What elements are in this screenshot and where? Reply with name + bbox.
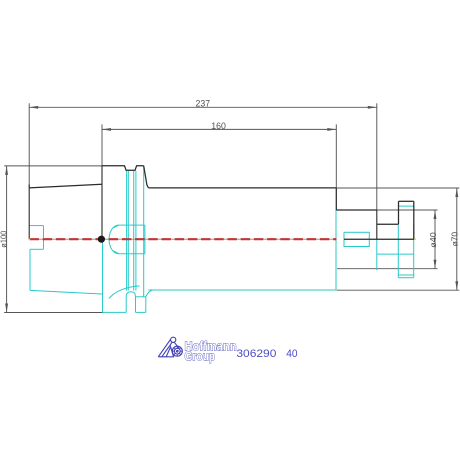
flange top edge with notch	[102, 166, 144, 171]
cavity chamfer top	[113, 225, 119, 228]
taper top edge	[29, 184, 102, 188]
logo head circle	[171, 337, 176, 342]
groove wall 2	[127, 171, 129, 291]
end face lower half	[376, 239, 378, 270]
bore opening end wall	[43, 226, 45, 250]
svg-text:Group: Group	[185, 350, 216, 364]
nut bottom edge	[398, 277, 413, 279]
logo triangle outer	[158, 337, 182, 357]
arrow 237 right	[368, 106, 377, 109]
bore cavity bullet arc	[109, 225, 118, 254]
logo gear hub	[177, 350, 179, 352]
dimension dia40	[337, 210, 438, 269]
flange bottom edge left	[103, 311, 127, 313]
svg-text:30629040: 30629040	[236, 348, 297, 360]
stud top edge	[377, 223, 399, 225]
nut left wall lower	[397, 225, 399, 278]
flange slot bump	[126, 292, 135, 313]
flange front face lower half	[102, 239, 104, 312]
logo gear spokes	[172, 346, 182, 356]
flange back face	[143, 166, 145, 297]
logo inner triangle	[166, 347, 173, 357]
arrow dia40 bottom	[434, 260, 437, 269]
chamfer arc lower	[146, 290, 153, 297]
taper bottom edge	[30, 290, 102, 294]
bore wall	[144, 225, 146, 254]
arrow dia40 top	[434, 210, 437, 219]
svg-text:160: 160	[211, 121, 226, 131]
arrow 237 left	[29, 106, 38, 109]
dimension dia70	[336, 188, 459, 290]
nut inner line lower	[398, 274, 413, 276]
shoulder step	[335, 188, 337, 210]
nut right wall	[413, 201, 415, 239]
centerline end tick right	[414, 238, 416, 240]
arrow 160 right	[327, 128, 336, 131]
arrow 160 left	[102, 128, 111, 131]
stud bottom edge	[377, 253, 414, 255]
section lines cyan lower half	[29, 166, 414, 313]
svg-text:ø70: ø70	[449, 232, 459, 247]
left face	[28, 185, 30, 240]
nut top edge	[399, 200, 414, 202]
flange chamfer	[144, 166, 149, 188]
left face lower half	[29, 249, 31, 290]
flange front face	[101, 166, 103, 239]
nut left wall	[398, 201, 400, 224]
logo needle	[174, 342, 179, 348]
bore opening bottom wall	[30, 248, 44, 250]
step line	[136, 296, 146, 298]
dimension dia100	[4, 166, 102, 313]
svg-text:ø40: ø40	[428, 232, 438, 248]
arrow dia70 bottom	[455, 281, 458, 290]
groove wall 4	[135, 171, 137, 291]
bore opening top wall	[29, 225, 43, 227]
dia40 top edge	[336, 209, 377, 211]
nut inner line upper	[399, 205, 414, 207]
dimension 237	[29, 103, 377, 210]
svg-text:237: 237	[196, 99, 211, 109]
centerline end tick left	[29, 238, 31, 240]
cavity bottom wall	[119, 253, 145, 255]
cavity chamfer bottom	[113, 251, 119, 254]
shoulder lower half	[335, 210, 337, 290]
body top edge	[148, 187, 336, 189]
arrow dia100 bottom	[5, 304, 8, 313]
logo gear outer	[172, 346, 182, 356]
logo gear inner	[174, 348, 180, 354]
arrow dia70 top	[455, 188, 458, 197]
stud axis edge	[344, 238, 414, 240]
svg-text:ø100: ø100	[0, 230, 8, 248]
nut right wall lower	[413, 225, 415, 278]
part outline upper half	[29, 166, 414, 239]
flange back step wall	[145, 297, 147, 313]
cavity top wall	[119, 224, 145, 226]
gauge point dot	[98, 236, 105, 243]
centerline red dashes	[30, 238, 337, 240]
centerline base	[29, 238, 337, 240]
cavity fork arc	[109, 286, 140, 299]
groove wall 1	[126, 171, 128, 291]
end face	[376, 210, 378, 239]
arrow dia100 top	[5, 166, 8, 175]
groove wall 3	[133, 171, 135, 291]
coolant box	[344, 232, 369, 246]
flange bottom edge right	[136, 311, 146, 313]
body bottom edge	[148, 289, 336, 291]
dimension 160	[102, 124, 336, 187]
